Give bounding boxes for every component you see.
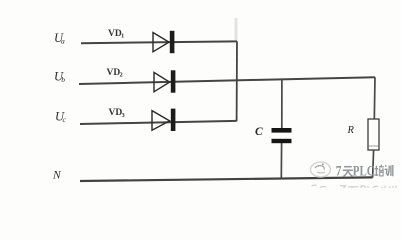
wire Uc row	[80, 121, 237, 124]
wire vertical bus	[236, 41, 238, 121]
svg-text:VD: VD	[107, 68, 121, 78]
watermark glyph xun	[385, 165, 393, 176]
svg-text:a: a	[61, 37, 65, 46]
watermark ghost row bottom	[312, 185, 397, 188]
label VD3	[109, 108, 126, 119]
svg-text:C: C	[255, 126, 263, 138]
label VD1	[108, 29, 124, 40]
wire N line	[80, 177, 373, 181]
svg-text:VD: VD	[108, 29, 122, 39]
diode VD1	[153, 31, 174, 53]
watermark text 7 PLC	[336, 162, 375, 179]
wire capacitor bottom lead	[280, 143, 282, 179]
svg-text:VD: VD	[109, 108, 123, 118]
wire resistor top lead	[373, 77, 376, 119]
svg-text:7: 7	[336, 162, 342, 179]
wire Ua row	[81, 41, 237, 43]
label VD2	[107, 68, 123, 79]
svg-text:3: 3	[122, 112, 126, 119]
watermark glyph tian	[343, 167, 353, 177]
svg-text:R: R	[347, 125, 355, 136]
svg-text:PLC: PLC	[353, 163, 375, 179]
scan smudge above bus corner	[235, 18, 238, 40]
svg-text:N: N	[52, 170, 62, 182]
svg-text:c: c	[63, 115, 67, 124]
wire resistor bottom lead	[373, 150, 374, 178]
watermark glyph pei	[374, 165, 384, 176]
svg-text:1: 1	[121, 33, 124, 40]
resistor R	[368, 119, 379, 150]
wire Ub row continuing to resistor top corner	[79, 77, 375, 84]
diode VD2	[154, 70, 175, 92]
watermark logo circle	[311, 162, 331, 177]
diode VD3	[152, 109, 175, 131]
label Uc	[55, 110, 67, 125]
capacitor C plates	[272, 128, 292, 143]
svg-text:2: 2	[120, 72, 123, 79]
wire capacitor top lead	[281, 80, 283, 129]
svg-text:b: b	[61, 75, 65, 84]
label Ub	[54, 70, 65, 85]
label Ua	[54, 31, 65, 46]
